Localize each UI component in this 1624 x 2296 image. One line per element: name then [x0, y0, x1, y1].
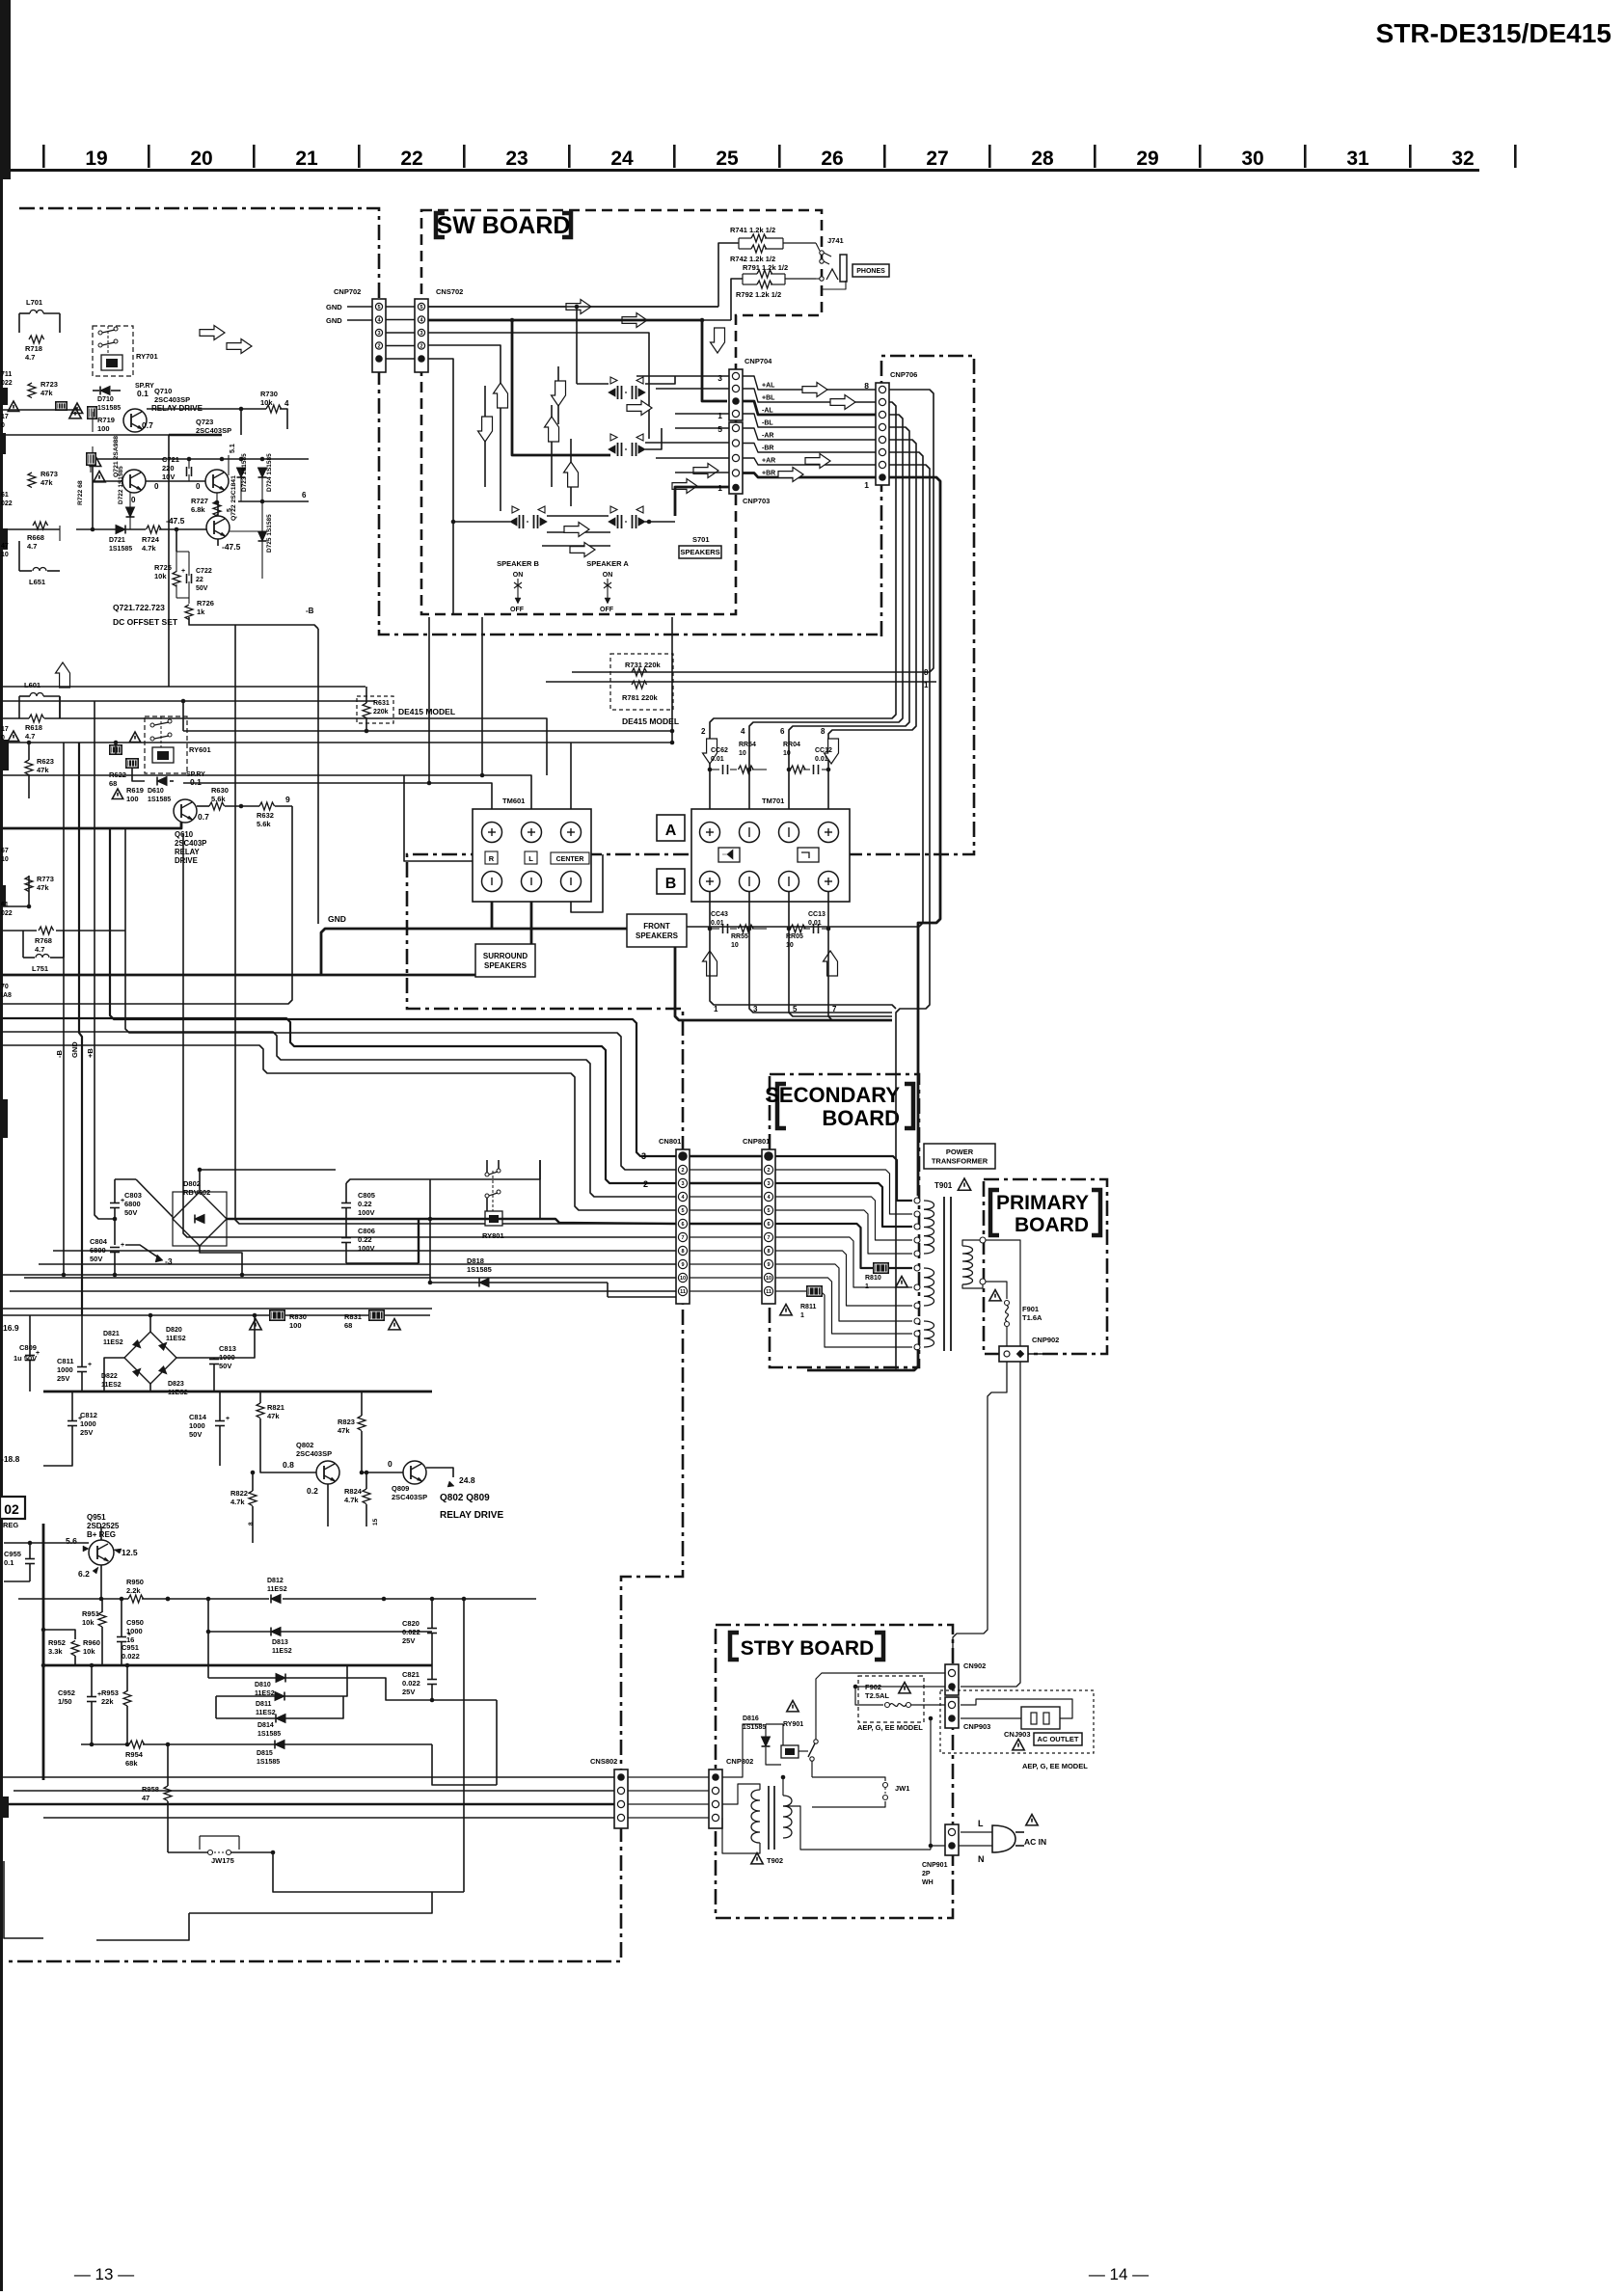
- switch group S701-4: [610, 506, 617, 513]
- relay RY701 dashed box: [93, 326, 133, 376]
- resistor R830 100 fusible: [269, 1310, 285, 1321]
- stby board dash-dot outline: [716, 1625, 953, 1918]
- svg-text:1000: 1000: [80, 1419, 96, 1428]
- svg-text:R811: R811: [800, 1304, 816, 1310]
- svg-text:L: L: [978, 1819, 984, 1828]
- connector CNP901: [945, 1824, 959, 1855]
- arrow sig 4: [778, 468, 803, 482]
- warning triangle left 1: [8, 401, 18, 412]
- svg-text:JW175: JW175: [211, 1856, 234, 1865]
- svg-text:AC IN: AC IN: [1024, 1837, 1046, 1847]
- warning triangle L601: [8, 731, 18, 742]
- resistor R622 68 fusible: [109, 744, 122, 755]
- wires CN801-CNP801 bridge: [690, 1155, 762, 1157]
- svg-text:7: 7: [767, 1235, 770, 1241]
- IC fragment 02 REG: [0, 1497, 25, 1519]
- svg-text:C814: C814: [189, 1413, 207, 1421]
- svg-text:0: 0: [154, 482, 159, 491]
- wire x448 lower: [432, 1744, 497, 1785]
- wire phones right boundary: [822, 281, 846, 289]
- svg-text:CNS802: CNS802: [590, 1757, 617, 1766]
- arrow sw right 5: [570, 543, 595, 557]
- svg-text:C722: C722: [196, 568, 212, 575]
- wire relay feeds right: [539, 1160, 541, 1219]
- svg-text:25V: 25V: [80, 1428, 93, 1437]
- wire TM601 feed R: [183, 783, 492, 822]
- svg-text:68k: 68k: [125, 1759, 138, 1768]
- wire y549 run: [76, 528, 116, 530]
- svg-text:1000: 1000: [189, 1421, 205, 1430]
- svg-text:R727: R727: [191, 497, 208, 505]
- svg-text:CNP903: CNP903: [963, 1722, 990, 1731]
- svg-text:CN902: CN902: [963, 1661, 986, 1670]
- warning R810: [896, 1277, 907, 1287]
- wires CNS802-CNP802 bridge: [628, 1776, 709, 1778]
- resistor RR55 10: [739, 925, 754, 932]
- svg-text:REG: REG: [3, 1521, 18, 1529]
- svg-text:2.2k: 2.2k: [126, 1586, 141, 1595]
- jumper JW175: [200, 1835, 239, 1837]
- svg-text:11: 11: [766, 1289, 771, 1295]
- svg-text:Q802 Q809: Q802 Q809: [440, 1493, 490, 1503]
- svg-text:2: 2: [681, 1168, 684, 1174]
- svg-text:Q722 2SC1841: Q722 2SC1841: [230, 475, 237, 521]
- wire to CNP704 pin4: [675, 413, 729, 415]
- svg-text:R724: R724: [142, 535, 160, 544]
- wire feed pin5: [0, 1045, 676, 1210]
- wire sw G3 left feed: [453, 521, 510, 523]
- transformer T901 secondary windings: [924, 1201, 934, 1254]
- wire left rail x45 bold: [42, 1524, 45, 1780]
- wire sw G3-G4 links: [547, 515, 563, 517]
- svg-text:50V: 50V: [219, 1362, 231, 1370]
- svg-text:C950: C950: [126, 1618, 144, 1627]
- svg-text:50V: 50V: [124, 1208, 137, 1217]
- svg-text:D821: D821: [103, 1331, 120, 1337]
- svg-text:C951: C951: [122, 1643, 139, 1652]
- connector CNP704: [729, 369, 743, 420]
- wire +B rail to bridge: [95, 701, 115, 1219]
- svg-text:R742 1.2k 1/2: R742 1.2k 1/2: [730, 255, 775, 263]
- wire CNS702 to R741 network: [428, 306, 718, 308]
- resistor R831 68 fusible: [368, 1310, 385, 1321]
- wires RY601 cluster: [0, 717, 29, 719]
- svg-text:SPEAKERS: SPEAKERS: [636, 932, 679, 940]
- wire +B bold east run: [227, 1219, 676, 1224]
- resistor R824 4.7k: [363, 1489, 370, 1504]
- svg-text:STBY BOARD: STBY BOARD: [741, 1637, 874, 1660]
- bridge D820-D823 11ES2: [124, 1332, 176, 1384]
- label SW BOARD: [436, 213, 445, 237]
- wire sw y318 run: [428, 306, 718, 308]
- svg-text:CC12: CC12: [815, 747, 832, 754]
- svg-text:5.6: 5.6: [66, 1536, 77, 1546]
- svg-text:L751: L751: [32, 964, 48, 973]
- svg-text:F901: F901: [1022, 1305, 1039, 1313]
- svg-text:31: 31: [1346, 148, 1369, 170]
- svg-text:5: 5: [793, 1005, 798, 1013]
- wire CNP903 pin2 down to CNP901: [930, 1718, 932, 1846]
- svg-text:-AR: -AR: [762, 433, 773, 440]
- relay RY701 coil: [101, 355, 122, 370]
- transistor Q610: [174, 799, 197, 823]
- wire primary to CNP902 pin2: [986, 1240, 1020, 1346]
- svg-text:R725: R725: [154, 563, 172, 572]
- svg-text:10k: 10k: [154, 572, 167, 581]
- svg-text:D802: D802: [183, 1179, 201, 1188]
- svg-text:D814: D814: [257, 1722, 274, 1729]
- transistor Q721 2SA988: [122, 470, 146, 493]
- wire to CNP703 pins: [675, 427, 729, 429]
- wire verticals x224: [215, 1696, 217, 1718]
- diode D815 1S1585: [275, 1741, 284, 1749]
- wire left lower stubs: [0, 1776, 614, 1778]
- wire x196: [96, 1913, 189, 1940]
- svg-text:S701: S701: [692, 535, 710, 544]
- svg-text:SW BOARD: SW BOARD: [437, 212, 571, 239]
- svg-text:8: 8: [821, 727, 826, 736]
- warning triangle R722: [94, 472, 105, 482]
- svg-text:D823: D823: [168, 1381, 184, 1388]
- speaker icon A: [718, 848, 740, 862]
- svg-text:R951: R951: [82, 1609, 99, 1618]
- svg-text:22: 22: [196, 577, 203, 583]
- wire -BR to CNP706: [743, 444, 876, 453]
- svg-text:12.5: 12.5: [122, 1548, 138, 1557]
- svg-text:D818: D818: [467, 1256, 484, 1265]
- svg-text:4.7k: 4.7k: [230, 1498, 245, 1506]
- relay RY901 switch: [814, 1740, 818, 1743]
- wire left column top: [18, 313, 20, 333]
- svg-text:6.2: 6.2: [78, 1569, 90, 1579]
- svg-text:J741: J741: [827, 236, 844, 245]
- svg-text:GND: GND: [326, 303, 342, 311]
- svg-text:17: 17: [1, 726, 9, 733]
- svg-text:R810: R810: [865, 1275, 881, 1282]
- connector CNP706: [876, 383, 889, 485]
- wire bold zero bus y1443: [43, 1391, 432, 1393]
- svg-text:5: 5: [420, 305, 422, 311]
- wire long vertical x190: [183, 833, 676, 1237]
- connector CNP702: [372, 299, 386, 372]
- svg-text:R954: R954: [125, 1750, 144, 1759]
- svg-text:6.8k: 6.8k: [191, 505, 205, 514]
- svg-text:T1.6A: T1.6A: [1022, 1313, 1042, 1322]
- resistor R958 47: [164, 1786, 172, 1801]
- arrow sw right 3: [672, 479, 697, 494]
- connector CNP902: [999, 1346, 1028, 1362]
- svg-text:D812: D812: [267, 1578, 284, 1584]
- wire sw support verticals: [557, 366, 559, 424]
- svg-text:1: 1: [717, 483, 722, 493]
- AC plug: [992, 1825, 1015, 1852]
- wire CNP903 pin1 to outlet: [961, 1699, 1072, 1718]
- svg-text:C803: C803: [124, 1191, 142, 1200]
- resistor R954 68k: [129, 1741, 145, 1748]
- svg-text:RY601: RY601: [189, 745, 211, 754]
- svg-text:1: 1: [717, 411, 722, 420]
- wire y1692 D813: [207, 1599, 209, 1632]
- svg-text:-BR: -BR: [762, 446, 773, 452]
- svg-text:11ES2: 11ES2: [256, 1710, 276, 1716]
- warning CNJ903: [1013, 1740, 1024, 1750]
- warning AC IN: [1026, 1815, 1038, 1825]
- svg-text:1/50: 1/50: [58, 1697, 72, 1706]
- svg-text:R824: R824: [344, 1487, 363, 1496]
- svg-text:4: 4: [741, 727, 745, 736]
- svg-text:5: 5: [767, 1208, 770, 1214]
- svg-text:022: 022: [1, 380, 13, 387]
- svg-text:DE415 MODEL: DE415 MODEL: [622, 716, 679, 726]
- svg-text:R731 220k: R731 220k: [625, 661, 662, 669]
- svg-text:2SC403SP: 2SC403SP: [196, 426, 231, 435]
- wire y1740 D810: [207, 1632, 209, 1678]
- svg-text:0.022: 0.022: [122, 1652, 140, 1661]
- warning triangle R710: [69, 408, 81, 419]
- svg-text:2: 2: [701, 727, 706, 736]
- svg-text:R950: R950: [126, 1578, 144, 1586]
- svg-text:10: 10: [766, 1276, 771, 1282]
- label SURROUND SPEAKERS: [475, 944, 535, 977]
- resistor R618 4.7: [29, 715, 44, 722]
- resistor R768 4.7: [39, 927, 54, 934]
- svg-text:CNP801: CNP801: [743, 1137, 770, 1146]
- svg-text:T2.5AL: T2.5AL: [865, 1691, 889, 1700]
- wire Q809 base: [362, 1472, 403, 1473]
- svg-text:TRANSFORMER: TRANSFORMER: [932, 1156, 988, 1165]
- warning R830: [250, 1319, 261, 1330]
- capacitor C722 22 50V: [186, 574, 188, 583]
- wire right rail x481: [463, 1599, 465, 1892]
- svg-text:0: 0: [131, 496, 136, 504]
- svg-text:N: N: [978, 1854, 985, 1864]
- arrow sw right 1: [627, 401, 652, 416]
- resistor R731 220k dashed box: [610, 654, 673, 710]
- ruler tick marks: [42, 145, 45, 168]
- svg-text:0.1: 0.1: [4, 1558, 14, 1567]
- arrow sw up 3: [564, 462, 579, 487]
- wire feed pin3: [0, 1018, 676, 1183]
- svg-text:+: +: [121, 1198, 124, 1204]
- wire TM601 feed CENTER: [570, 743, 572, 822]
- label B speakers: [657, 869, 685, 894]
- svg-text:— 14 —: — 14 —: [1089, 2265, 1149, 2283]
- wire +B into C803 node: [115, 1178, 136, 1180]
- scan edge blobs left margin: [0, 388, 8, 405]
- wire CN902 pin1 to switch: [816, 1673, 945, 1726]
- switch group S701-3: [512, 506, 519, 513]
- svg-text:C955: C955: [4, 1550, 21, 1558]
- wire snubber B: [789, 769, 791, 770]
- svg-text:R830: R830: [289, 1312, 307, 1321]
- svg-text:100V: 100V: [358, 1244, 375, 1253]
- svg-text:4.7: 4.7: [35, 945, 44, 954]
- svg-text:220k: 220k: [373, 709, 389, 716]
- warning triangle R710: [71, 403, 82, 414]
- svg-text:C721: C721: [162, 455, 179, 464]
- wire bold bus y1727: [43, 1664, 432, 1667]
- svg-text:CNS702: CNS702: [436, 287, 463, 296]
- capacitor C809 1u 50V: [25, 1355, 35, 1357]
- wire bundle pin7 to TM701-2: [710, 402, 896, 822]
- wire bold bus y1011: [0, 974, 531, 977]
- svg-text:C813: C813: [219, 1344, 236, 1353]
- wire CNP902 pin1 down to CN902: [953, 1362, 1007, 1662]
- svg-text:T901: T901: [934, 1181, 953, 1190]
- fuse F901 T1.6A: [1005, 1301, 1010, 1306]
- svg-text:-B: -B: [55, 1050, 64, 1058]
- wire SW board drop to TM601 R: [428, 617, 430, 783]
- resistor R631 220k dashed box: [357, 696, 393, 723]
- svg-text:5.6k: 5.6k: [257, 820, 271, 828]
- resistor R823 47k: [358, 1416, 365, 1431]
- wire bundle pin6 to TM701-4: [749, 415, 903, 822]
- svg-text:Q802: Q802: [296, 1441, 313, 1449]
- svg-text:1S1585: 1S1585: [467, 1265, 492, 1274]
- svg-text:ON: ON: [513, 572, 524, 579]
- svg-text:RELAY: RELAY: [175, 848, 201, 856]
- svg-text:1u 50V: 1u 50V: [14, 1354, 37, 1363]
- wires lower-left: [0, 905, 29, 907]
- svg-text:3: 3: [377, 331, 380, 337]
- svg-text:47: 47: [142, 1794, 149, 1802]
- svg-text:D721: D721: [109, 537, 125, 544]
- label A speakers: [657, 815, 685, 841]
- wire sw G1 left feed: [577, 383, 609, 385]
- svg-text:68: 68: [109, 779, 117, 788]
- svg-text:L601: L601: [24, 681, 41, 689]
- arrow sig 2: [830, 395, 855, 410]
- svg-text:RR04: RR04: [783, 742, 800, 748]
- svg-text:C812: C812: [80, 1411, 97, 1419]
- svg-text:CNP706: CNP706: [890, 370, 917, 379]
- signal arrow left 2: [227, 339, 252, 354]
- wire Q721 base link: [146, 480, 205, 482]
- wire CNP901 pin2 to plug N: [961, 1845, 992, 1847]
- resistor R822 4.7k: [249, 1491, 257, 1506]
- R791/R792 parallel nodes: [743, 273, 757, 275]
- svg-text:32: 32: [1451, 148, 1474, 170]
- svg-text:R722 68: R722 68: [77, 480, 84, 505]
- transformer T901 core: [943, 1197, 945, 1351]
- svg-text:-B: -B: [306, 607, 314, 615]
- wire bridge bottom lead: [200, 1246, 242, 1275]
- svg-text:3: 3: [681, 1181, 684, 1187]
- svg-text:OFF: OFF: [510, 607, 525, 613]
- svg-text:50V: 50V: [90, 1255, 102, 1263]
- terminal block TM601: [473, 809, 591, 902]
- wire y520 run: [238, 500, 309, 502]
- svg-text:4.7k: 4.7k: [344, 1496, 359, 1504]
- svg-text:WH: WH: [922, 1879, 934, 1886]
- label R terminal: [485, 851, 498, 864]
- warning R811: [780, 1305, 792, 1315]
- svg-text:1: 1: [714, 1005, 718, 1013]
- svg-text:CNP702: CNP702: [334, 287, 361, 296]
- svg-text:3: 3: [767, 1181, 770, 1187]
- svg-text:6: 6: [302, 491, 307, 500]
- svg-text:0: 0: [196, 482, 201, 491]
- svg-text:Q951: Q951: [87, 1513, 106, 1522]
- svg-text:AEP, G, EE MODEL: AEP, G, EE MODEL: [1022, 1762, 1088, 1770]
- svg-text:TM601: TM601: [502, 797, 525, 805]
- svg-text:C811: C811: [57, 1357, 74, 1365]
- AC outlet CNJ903: [1021, 1707, 1060, 1729]
- svg-text:11: 11: [680, 1289, 686, 1295]
- svg-text:25V: 25V: [402, 1688, 415, 1696]
- svg-text:L701: L701: [26, 298, 42, 307]
- switch group S701-1: [610, 377, 617, 384]
- svg-text:R823: R823: [338, 1418, 355, 1426]
- wire rail x929 bottom: [895, 1366, 897, 1370]
- svg-text:R768: R768: [35, 936, 52, 945]
- relay RY601 dashed box: [145, 716, 187, 773]
- svg-text:7: 7: [832, 1005, 837, 1013]
- label PHONES: [853, 264, 889, 277]
- svg-text:R821: R821: [267, 1403, 284, 1412]
- svg-text:9: 9: [285, 795, 290, 804]
- svg-text:D811: D811: [256, 1701, 271, 1708]
- svg-text:D724 1S1585: D724 1S1585: [266, 453, 273, 492]
- junction dots RY601: [27, 741, 32, 745]
- label CENTER terminal: [551, 852, 589, 864]
- svg-text:RR55: RR55: [731, 933, 748, 940]
- svg-text:28: 28: [1031, 148, 1054, 170]
- transistor Q951: [89, 1540, 114, 1565]
- svg-text:DE415 MODEL: DE415 MODEL: [398, 707, 455, 716]
- wire sw G2 right out: [645, 428, 662, 449]
- wire Q809 collector: [426, 1468, 453, 1477]
- relay RY601 contacts: [150, 723, 154, 727]
- transformer T901 primary winding: [962, 1246, 973, 1284]
- fuse F902 symbol: [885, 1703, 890, 1708]
- svg-text:1: 1: [924, 681, 929, 689]
- warning + resistor R619 100: [112, 789, 122, 799]
- svg-text:D610: D610: [148, 788, 164, 795]
- svg-text:R673: R673: [41, 470, 58, 478]
- wire y1322 long: [0, 1274, 430, 1276]
- relay RY601 coil: [152, 747, 174, 763]
- wire Q802 base: [268, 1472, 316, 1473]
- svg-text:22: 22: [400, 148, 422, 170]
- resistor R623 47k: [25, 760, 33, 775]
- svg-text:SPEAKER B: SPEAKER B: [497, 559, 539, 568]
- svg-text:D810: D810: [255, 1682, 271, 1688]
- svg-text:GND: GND: [70, 1041, 79, 1058]
- label T902 warning: [751, 1853, 763, 1864]
- svg-text:CC13: CC13: [808, 911, 826, 918]
- svg-text:10: 10: [731, 942, 739, 949]
- svg-text:R631: R631: [373, 700, 390, 707]
- svg-text:6800: 6800: [90, 1246, 106, 1255]
- relay RY901 coil: [781, 1745, 798, 1758]
- svg-text:0.022: 0.022: [402, 1628, 420, 1636]
- svg-text:23: 23: [505, 148, 528, 170]
- svg-text:SPEAKER A: SPEAKER A: [586, 559, 629, 568]
- wire y620: [176, 597, 189, 599]
- connector CNP703: [729, 422, 743, 494]
- svg-text:02: 02: [4, 1501, 19, 1517]
- main board boundary top: [19, 208, 878, 635]
- svg-text:26: 26: [821, 148, 843, 170]
- diode D811 11ES2: [275, 1692, 284, 1701]
- svg-text:R632: R632: [257, 811, 274, 820]
- connector CN801: [676, 1149, 690, 1304]
- label AC OUTLET: [1034, 1733, 1082, 1745]
- wire CNP902 right stub: [1028, 1353, 1051, 1355]
- wires Q72x cluster misc: [0, 409, 81, 411]
- transformer T902: [751, 1790, 760, 1843]
